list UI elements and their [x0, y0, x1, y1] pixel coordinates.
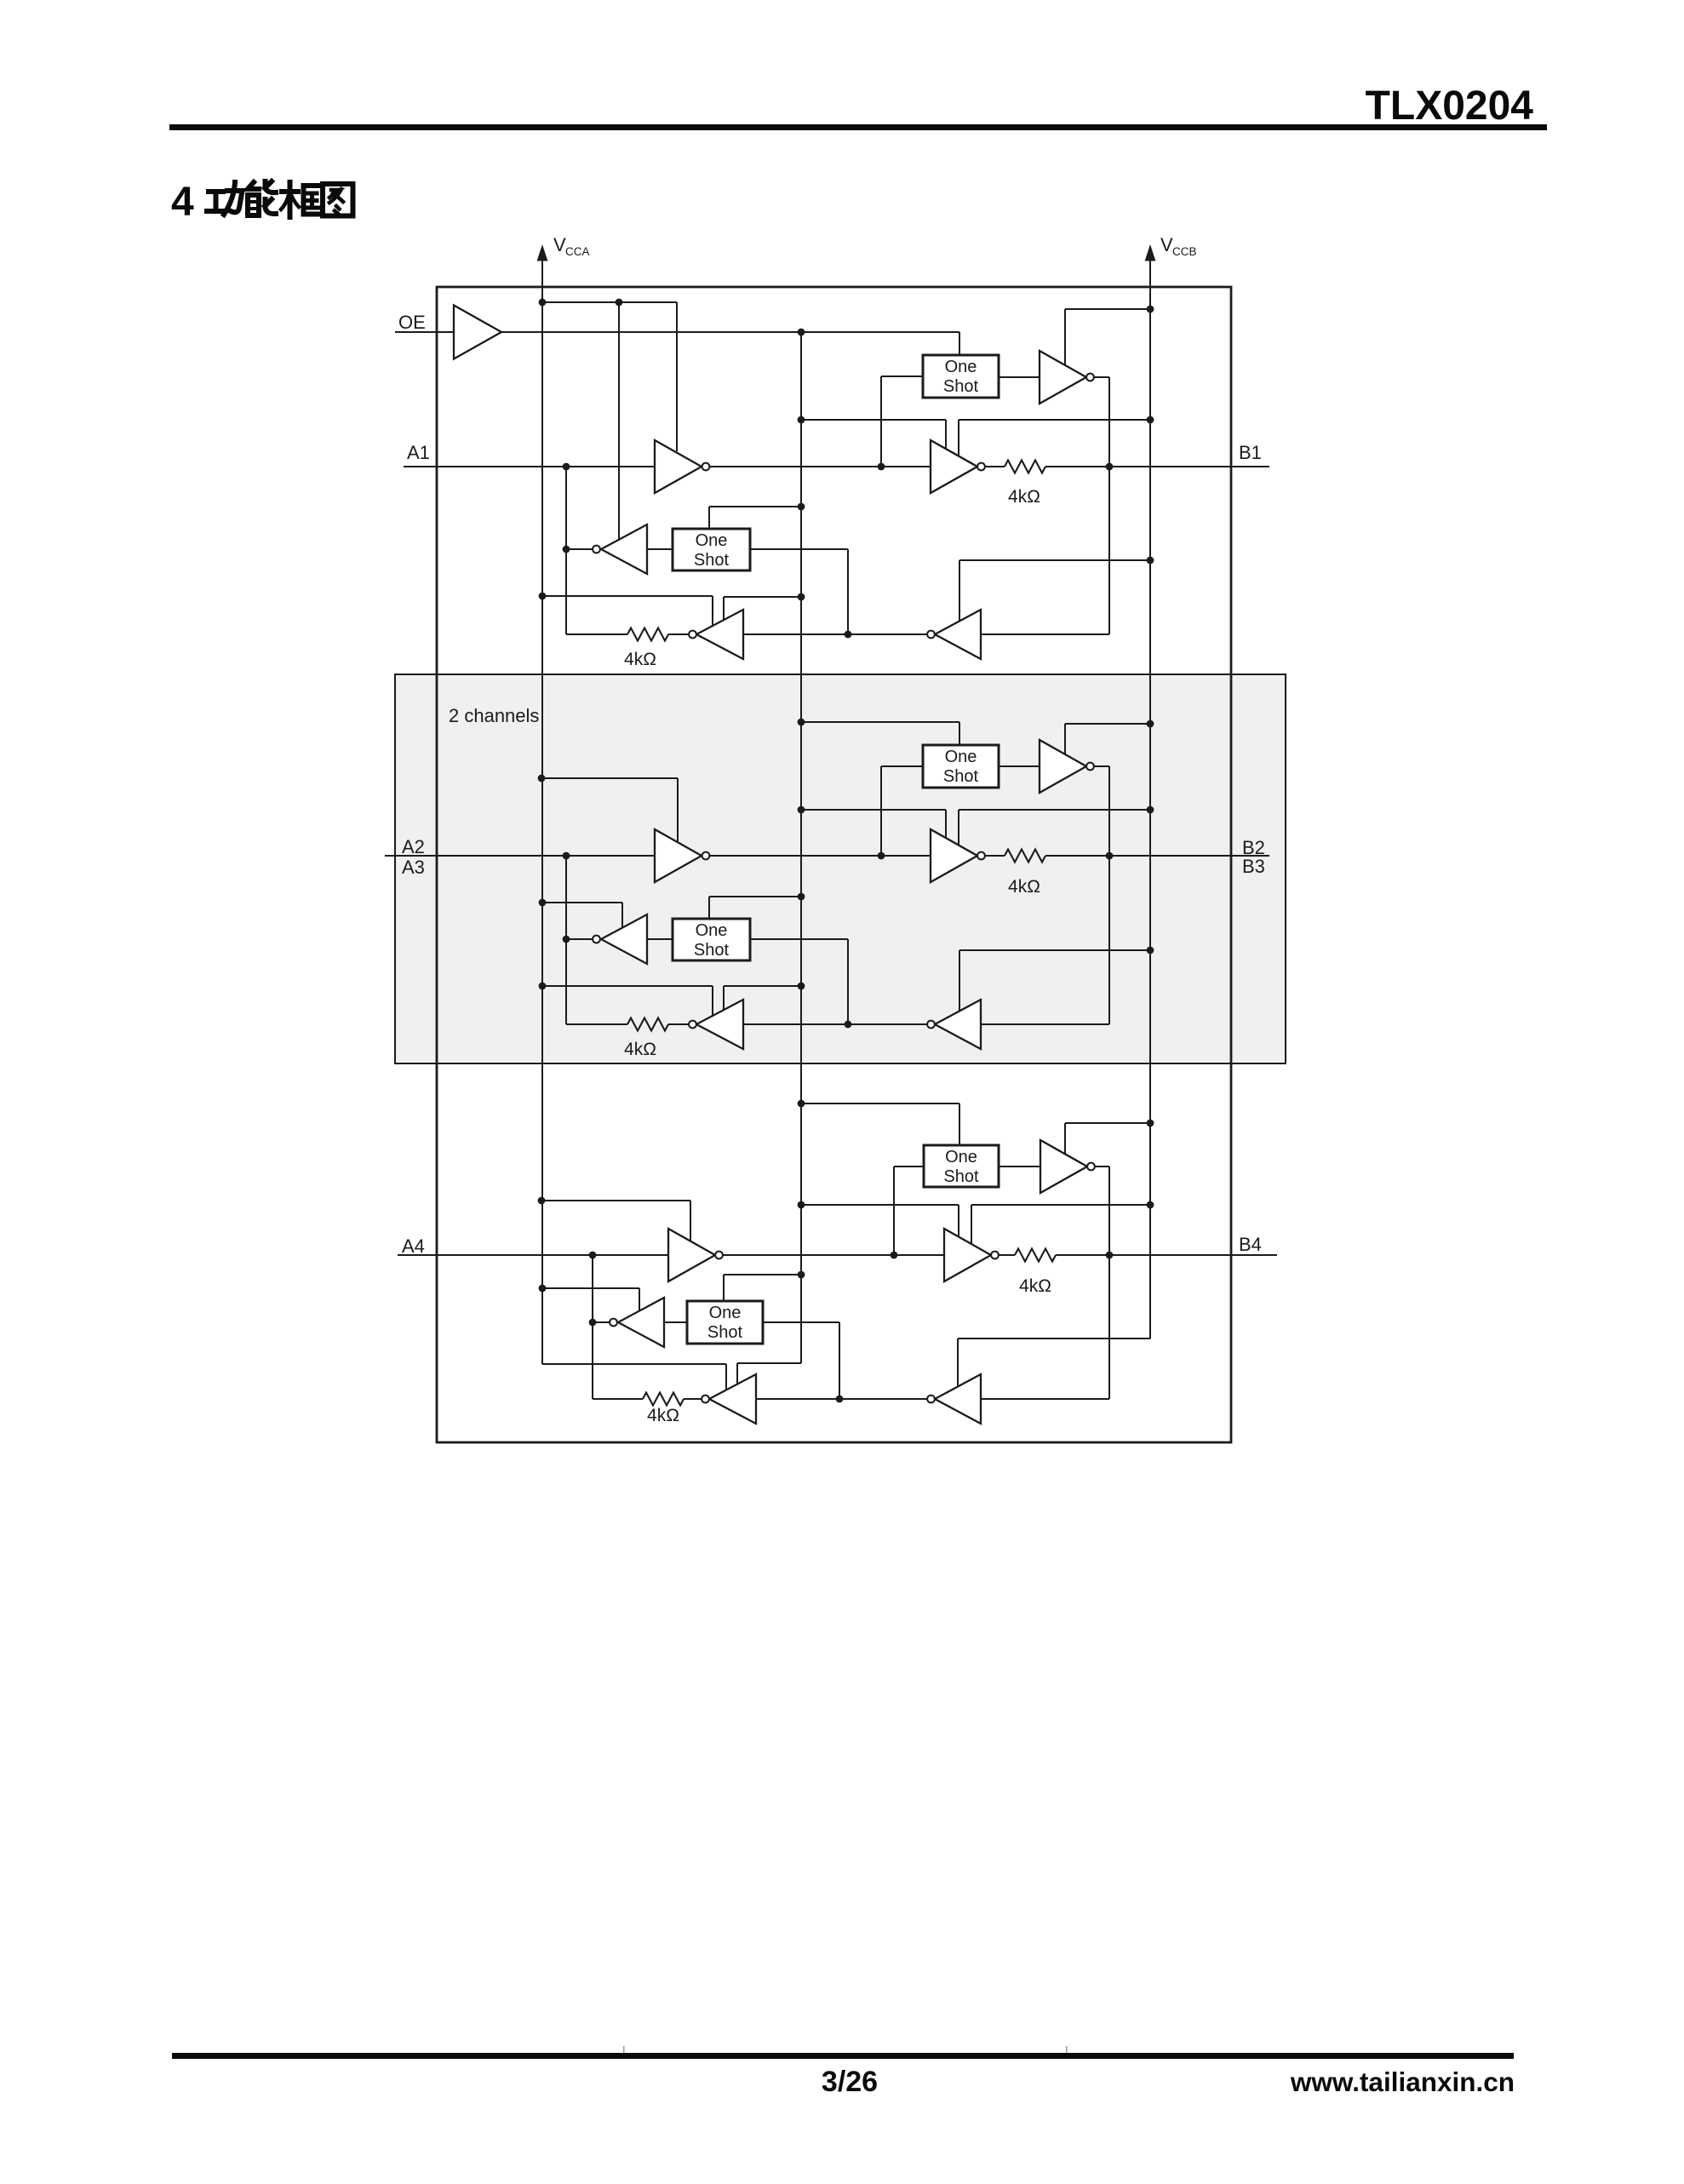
svg-text:4kΩ: 4kΩ [1008, 487, 1040, 507]
svg-text:4kΩ: 4kΩ [647, 1406, 679, 1425]
svg-text:A1: A1 [407, 442, 430, 463]
svg-text:Shot: Shot [943, 767, 979, 786]
svg-text:B4: B4 [1239, 1234, 1262, 1255]
svg-text:www.tailianxin.cn: www.tailianxin.cn [1290, 2066, 1515, 2097]
svg-text:4: 4 [171, 180, 194, 225]
svg-text:Shot: Shot [943, 1167, 979, 1186]
svg-text:One: One [696, 921, 728, 940]
svg-text:A3: A3 [402, 857, 425, 878]
svg-text:One: One [945, 1148, 977, 1167]
svg-text:OE: OE [398, 312, 426, 333]
svg-text:Shot: Shot [694, 941, 730, 960]
svg-text:CCB: CCB [1172, 245, 1197, 258]
svg-text:V: V [1160, 234, 1173, 255]
svg-text:2 channels: 2 channels [449, 705, 539, 726]
svg-text:3/26: 3/26 [822, 2066, 878, 2098]
svg-text:4kΩ: 4kΩ [624, 1040, 656, 1059]
svg-text:One: One [945, 748, 977, 766]
svg-text:4kΩ: 4kΩ [1008, 877, 1040, 897]
svg-text:TLX0204: TLX0204 [1366, 83, 1534, 129]
svg-text:Shot: Shot [943, 377, 979, 396]
svg-text:V: V [553, 234, 566, 255]
svg-text:One: One [696, 531, 728, 550]
svg-text:Shot: Shot [694, 551, 730, 570]
svg-text:CCA: CCA [565, 245, 590, 258]
svg-text:One: One [709, 1304, 742, 1322]
svg-text:4kΩ: 4kΩ [1019, 1276, 1051, 1296]
svg-text:A2: A2 [402, 836, 425, 857]
svg-text:A4: A4 [402, 1235, 425, 1257]
svg-text:B1: B1 [1239, 442, 1262, 463]
svg-text:One: One [945, 358, 977, 376]
svg-text:4kΩ: 4kΩ [624, 650, 656, 669]
svg-text:Shot: Shot [707, 1323, 743, 1342]
svg-text:B3: B3 [1242, 856, 1265, 877]
